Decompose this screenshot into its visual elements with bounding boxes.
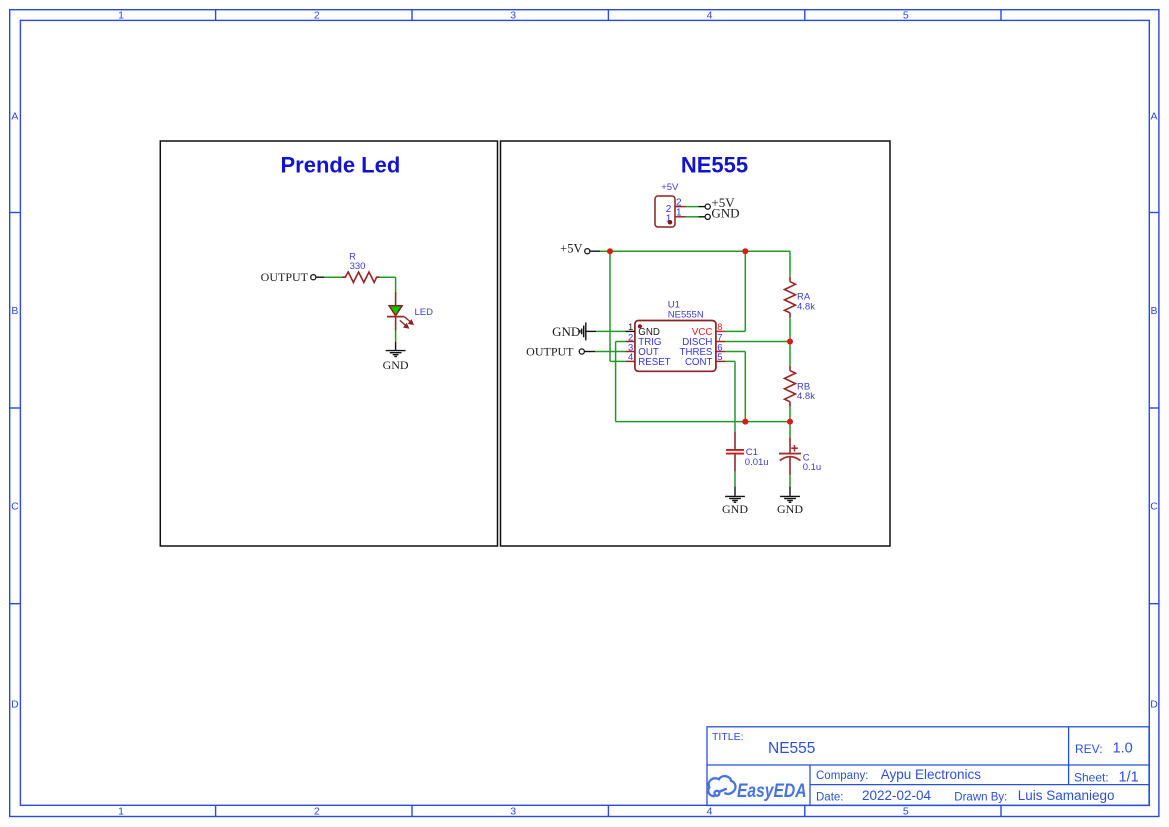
svg-text:Prende Led: Prende Led [280, 153, 400, 178]
svg-text:Date:: Date: [816, 791, 844, 803]
svg-text:GND: GND [722, 502, 748, 516]
svg-text:GND: GND [711, 206, 739, 221]
svg-text:REV:: REV: [1075, 742, 1103, 756]
svg-text:1: 1 [118, 806, 124, 818]
svg-text:A: A [1150, 111, 1157, 123]
svg-text:1.0: 1.0 [1113, 741, 1133, 757]
svg-text:B: B [1150, 305, 1157, 317]
svg-text:5: 5 [903, 10, 909, 22]
svg-text:GND: GND [777, 502, 803, 516]
svg-text:CONT: CONT [685, 357, 713, 368]
svg-text:EasyEDA: EasyEDA [737, 781, 807, 802]
svg-text:2: 2 [314, 10, 320, 22]
svg-text:A: A [11, 111, 18, 123]
svg-text:NE555N: NE555N [668, 310, 704, 321]
svg-text:TITLE:: TITLE: [712, 731, 744, 743]
svg-text:330: 330 [350, 261, 366, 272]
svg-text:GND: GND [552, 324, 580, 339]
svg-text:+5V: +5V [661, 182, 679, 193]
svg-text:C: C [1150, 501, 1158, 513]
svg-text:OUTPUT: OUTPUT [261, 270, 309, 284]
svg-text:3: 3 [510, 806, 516, 818]
svg-text:D: D [11, 699, 19, 711]
svg-text:GND: GND [383, 358, 409, 372]
svg-text:4.8k: 4.8k [797, 302, 815, 313]
svg-text:1/1: 1/1 [1119, 769, 1139, 785]
svg-text:LED: LED [415, 307, 434, 318]
svg-text:4: 4 [707, 806, 713, 818]
svg-text:OUTPUT: OUTPUT [526, 344, 574, 358]
svg-text:4: 4 [628, 352, 633, 363]
svg-text:Sheet:: Sheet: [1074, 771, 1109, 785]
svg-text:2022-02-04: 2022-02-04 [862, 788, 932, 803]
svg-text:NE555: NE555 [681, 153, 748, 178]
svg-text:4: 4 [707, 10, 713, 22]
svg-text:C: C [11, 501, 19, 513]
svg-text:5: 5 [717, 352, 722, 363]
svg-text:B: B [11, 305, 18, 317]
svg-text:Drawn By:: Drawn By: [954, 791, 1007, 803]
svg-text:3: 3 [510, 10, 516, 22]
svg-text:0.01u: 0.01u [745, 457, 769, 468]
svg-text:2: 2 [314, 806, 320, 818]
svg-text:Aypu Electronics: Aypu Electronics [881, 767, 982, 782]
svg-text:Luis Samaniego: Luis Samaniego [1018, 788, 1115, 803]
svg-text:RESET: RESET [638, 357, 670, 368]
svg-text:NE555: NE555 [768, 740, 815, 757]
svg-text:0.1u: 0.1u [803, 462, 822, 473]
svg-text:Company:: Company: [816, 770, 868, 782]
svg-text:D: D [1150, 699, 1158, 711]
svg-text:+5V: +5V [560, 241, 582, 255]
svg-text:5: 5 [903, 806, 909, 818]
svg-text:4.8k: 4.8k [797, 391, 815, 402]
svg-text:1: 1 [118, 10, 124, 22]
